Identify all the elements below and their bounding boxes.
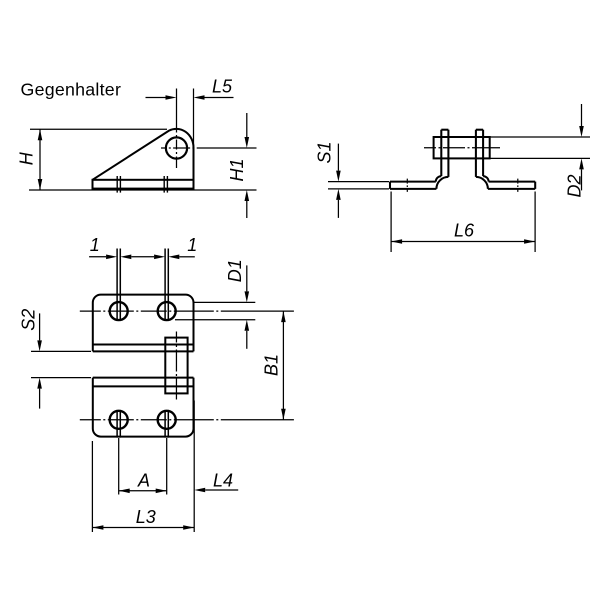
dimension H extension line top xyxy=(30,128,167,130)
dimension 1 middle segment arrows xyxy=(120,255,131,260)
plan view upper riser inner edge line xyxy=(93,350,194,352)
dimension L6 extension lines xyxy=(390,192,392,253)
svg-text:1: 1 xyxy=(187,235,197,255)
dimension D2 bottom arrow xyxy=(579,158,584,169)
front view right bend outer radius xyxy=(476,177,488,189)
side view slot edge marks left xyxy=(116,176,118,193)
dimension S2 bottom arrow xyxy=(37,378,42,389)
front view pin outline xyxy=(434,137,490,158)
front view pin centerline xyxy=(424,147,501,149)
plan view top-left slot edges xyxy=(116,249,118,320)
plan view pin centerline xyxy=(175,332,177,400)
plan view lower riser inner edge line xyxy=(93,377,194,379)
svg-text:D1: D1 xyxy=(225,259,245,282)
dimension H1 bottom arrow xyxy=(245,190,250,201)
svg-text:S1: S1 xyxy=(315,141,335,163)
front view left bend inner radius xyxy=(436,176,442,182)
plan view bottom holes centerline xyxy=(80,419,294,421)
plan view upper bend edge line xyxy=(93,344,194,346)
plan view hole bottom-right xyxy=(158,411,176,429)
svg-text:B1: B1 xyxy=(261,354,281,376)
plan view top holes centerline xyxy=(80,310,294,312)
plan view pin outline xyxy=(165,338,187,394)
front view right wing end cap xyxy=(534,182,536,189)
dimension S2 top arrow xyxy=(37,340,42,351)
dimension D2 extension lines xyxy=(490,136,590,138)
side view base plate outline xyxy=(93,180,194,189)
plan view hole top-left xyxy=(110,302,128,320)
dimension H / H1 extension line bottom xyxy=(29,189,257,191)
side view pivot hole xyxy=(166,137,187,158)
svg-text:L6: L6 xyxy=(454,221,475,241)
side view slot edge marks right xyxy=(163,176,165,193)
svg-text:L3: L3 xyxy=(136,507,156,527)
svg-text:1: 1 xyxy=(90,235,100,255)
plan view lower bracket outline xyxy=(93,378,194,437)
front view right wing top edge xyxy=(489,181,536,183)
front view left wing top edge xyxy=(390,181,436,183)
side view triangular flange outline xyxy=(93,129,194,189)
front view left hole center mark xyxy=(406,179,408,192)
dimension L5 left arrow xyxy=(166,95,177,100)
plan view lower bend edge line xyxy=(93,385,194,387)
plan view hole bottom-left xyxy=(110,411,128,429)
dimension A line with arrows xyxy=(119,490,167,492)
dimension L5 extension line right xyxy=(193,89,195,147)
svg-text:A: A xyxy=(137,471,150,491)
dimension S2 extension lines xyxy=(31,350,91,352)
dimension D1 extension lines xyxy=(194,301,255,303)
svg-text:Gegenhalter: Gegenhalter xyxy=(21,80,122,100)
dimension S1 bottom arrow xyxy=(336,189,341,200)
plan view hole top-right xyxy=(158,302,176,320)
svg-text:L4: L4 xyxy=(213,471,233,491)
front view left bend outer radius xyxy=(436,177,448,189)
side view hole vertical centerline xyxy=(176,89,178,169)
dimension A extension lines xyxy=(118,438,120,495)
dimension L5 right arrow xyxy=(194,95,205,100)
dimension D2 top arrow xyxy=(579,126,584,137)
dimension 1 right outside arrow xyxy=(168,255,179,260)
dimension L3 line with arrows xyxy=(92,527,194,529)
plan view bottom-right slot edges xyxy=(164,411,166,438)
dimension S1 extension lines xyxy=(328,181,389,183)
dimension B1 line with arrows xyxy=(282,311,284,420)
svg-text:H1: H1 xyxy=(227,158,247,181)
front view right hole center mark xyxy=(517,179,519,192)
svg-text:D2: D2 xyxy=(565,174,585,197)
dimension L6 line with arrows xyxy=(391,241,535,243)
front view right bend inner radius xyxy=(483,176,489,182)
svg-text:S2: S2 xyxy=(19,309,39,331)
front view left wing end cap xyxy=(389,182,391,189)
dimension L4 arrow xyxy=(194,488,205,493)
side view hole horizontal centerline xyxy=(161,147,257,149)
front view left wing bottom edge xyxy=(390,188,436,190)
plan view upper bracket outline xyxy=(93,295,194,352)
front view right riser plate xyxy=(482,130,484,176)
svg-text:H: H xyxy=(17,151,37,165)
dimension 1 left outside arrow xyxy=(106,255,117,260)
dimension D1 bottom arrow xyxy=(245,320,250,331)
dimension L3 extension lines xyxy=(91,441,93,532)
dimension D1 top arrow xyxy=(245,291,250,302)
dimension H1 top arrow xyxy=(245,137,250,148)
dimension H line with arrows xyxy=(39,129,41,190)
plan view top-right slot edges xyxy=(164,249,166,320)
front view left riser plate xyxy=(440,130,442,176)
front view right wing bottom edge xyxy=(488,188,535,190)
plan view bottom-left slot edges xyxy=(116,411,118,438)
dimension S1 top arrow xyxy=(336,171,341,182)
svg-text:L5: L5 xyxy=(212,77,233,97)
